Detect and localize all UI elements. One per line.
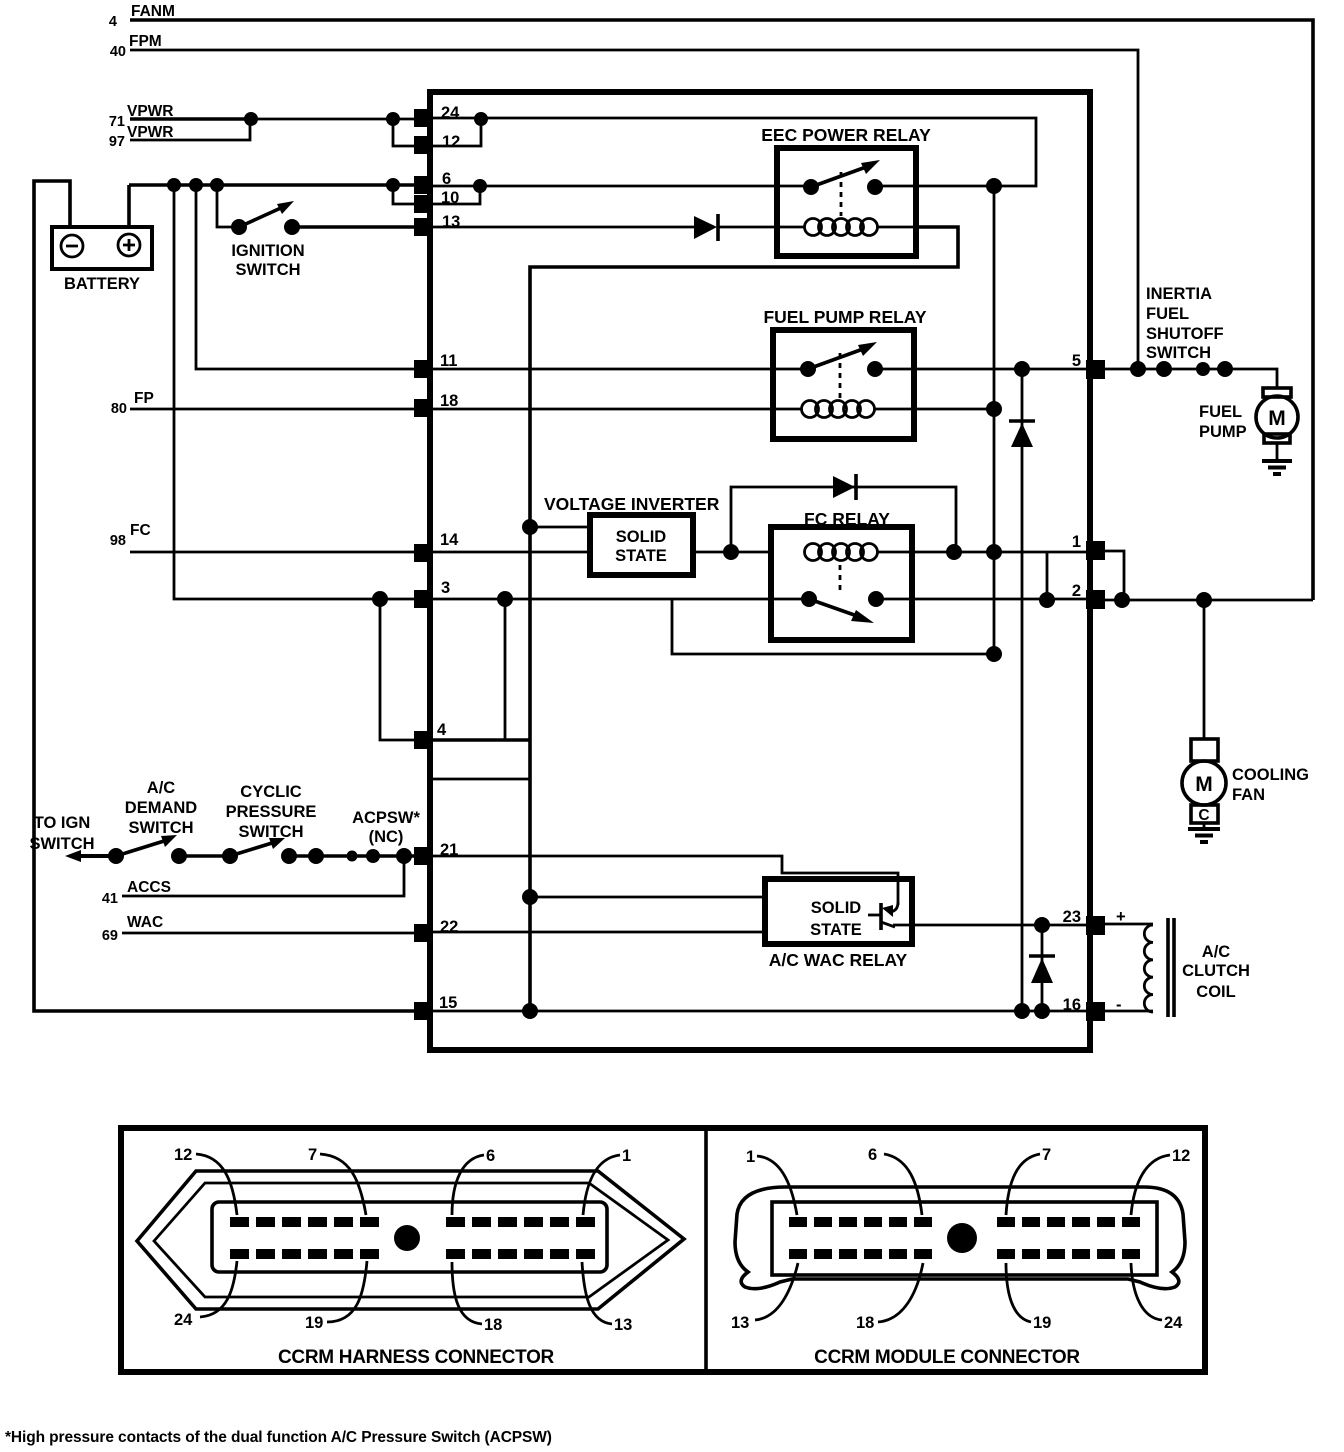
svg-text:7: 7 xyxy=(308,1146,317,1164)
svg-text:+: + xyxy=(1116,908,1126,926)
connector panel divider xyxy=(704,1128,708,1372)
svg-text:M: M xyxy=(1195,773,1213,796)
bracket pin 10 right xyxy=(433,186,480,204)
svg-text:13: 13 xyxy=(731,1314,749,1332)
A/C clutch coil L1 xyxy=(1144,925,1153,1012)
A/C WAC relay U2 xyxy=(765,879,912,944)
FC relay contacts xyxy=(801,591,817,607)
svg-text:TO IGN: TO IGN xyxy=(34,814,91,832)
junction bus D xyxy=(386,178,400,192)
svg-text:11: 11 xyxy=(440,352,457,370)
svg-text:CLUTCH: CLUTCH xyxy=(1182,962,1250,980)
svg-text:STATE: STATE xyxy=(615,547,667,565)
junction inverter feed xyxy=(522,519,538,535)
junction pin24 row inner xyxy=(474,112,488,126)
svg-text:VOLTAGE INVERTER: VOLTAGE INVERTER xyxy=(544,494,720,514)
svg-text:FP: FP xyxy=(134,390,154,407)
junction bus B xyxy=(189,178,203,192)
junction pin4 bracket mid xyxy=(497,591,513,607)
harness pins bottom row xyxy=(230,1249,595,1259)
svg-text:PUMP: PUMP xyxy=(1199,423,1247,441)
battery B1 xyxy=(52,227,152,269)
svg-text:EEC POWER RELAY: EEC POWER RELAY xyxy=(761,125,931,145)
wire VPWR pin 97 joins 71 xyxy=(130,119,250,140)
pin 11 xyxy=(414,360,433,378)
junction bypass right xyxy=(946,544,962,560)
harness key circle xyxy=(394,1225,420,1251)
svg-text:*High pressure contacts of the: *High pressure contacts of the dual func… xyxy=(5,1429,552,1446)
bracket pin 1 left drop xyxy=(1046,552,1049,600)
diode D3 bypass over FC relay xyxy=(731,487,956,552)
bracket pin 4 left xyxy=(380,599,414,740)
svg-text:13: 13 xyxy=(614,1316,632,1334)
wire EEC coil return vertical lower xyxy=(993,186,996,654)
svg-text:4: 4 xyxy=(437,721,447,739)
wire FP pin 80 row xyxy=(130,408,773,411)
pin 2 xyxy=(1086,590,1105,609)
wire battery bus to pin 6 xyxy=(129,183,414,187)
junction FC coil return xyxy=(986,544,1002,560)
pin 24 xyxy=(414,109,433,127)
pin 21 xyxy=(414,847,433,865)
svg-text:FC: FC xyxy=(130,522,151,539)
svg-text:71: 71 xyxy=(109,114,125,130)
svg-text:SWITCH: SWITCH xyxy=(238,823,303,841)
svg-text:1: 1 xyxy=(622,1147,631,1165)
fuel pump motor M1 xyxy=(1263,388,1291,397)
svg-text:ACPSW*: ACPSW* xyxy=(352,809,420,827)
svg-text:CCRM MODULE CONNECTOR: CCRM MODULE CONNECTOR xyxy=(814,1347,1080,1368)
battery B1 return wire to pin 15 xyxy=(34,181,414,1011)
EEC relay contacts xyxy=(803,179,819,195)
junction pin4 bracket left xyxy=(372,591,388,607)
A/C demand switch S3 xyxy=(108,848,124,864)
junction VPWR merge xyxy=(244,112,258,126)
junction diode D4 bottom xyxy=(1034,1003,1050,1019)
svg-text:3: 3 xyxy=(441,579,450,597)
svg-text:ACCS: ACCS xyxy=(127,879,171,896)
pin 15 xyxy=(414,1002,433,1020)
svg-text:10: 10 xyxy=(441,189,459,207)
svg-text:CCRM HARNESS CONNECTOR: CCRM HARNESS CONNECTOR xyxy=(278,1347,555,1368)
junction WAC relay feed xyxy=(522,889,538,905)
pin 3 xyxy=(414,590,433,608)
diode D2 vertical to pin16 row xyxy=(1021,369,1024,1011)
wire ignition feed drop xyxy=(217,185,237,227)
svg-text:COIL: COIL xyxy=(1196,983,1235,1001)
wire ACPSW row xyxy=(289,854,414,858)
pin 18 xyxy=(414,399,433,417)
svg-text:FUEL PUMP RELAY: FUEL PUMP RELAY xyxy=(763,307,926,327)
svg-text:IGNITION: IGNITION xyxy=(231,242,304,260)
junction coil return at pin15 row xyxy=(522,1003,538,1019)
wire VPWR pin 71 xyxy=(130,117,252,121)
diode D4 clutch clamp xyxy=(1041,925,1044,1011)
svg-text:24: 24 xyxy=(441,104,460,122)
wire FANM net xyxy=(130,20,1313,600)
wire pin 21 row inner xyxy=(433,856,898,905)
battery B1 positive feed to bus xyxy=(127,185,131,228)
svg-text:12: 12 xyxy=(174,1146,192,1164)
bracket pin 12 right xyxy=(433,119,481,146)
svg-text:C: C xyxy=(1198,807,1209,824)
svg-text:FUEL: FUEL xyxy=(1146,305,1189,323)
junction FP coil return xyxy=(986,401,1002,417)
svg-text:19: 19 xyxy=(1033,1314,1051,1332)
bracket pin 4 mid xyxy=(504,599,507,740)
ground fuel pump xyxy=(1276,443,1279,461)
wire clutch coil minus xyxy=(1105,1010,1153,1013)
svg-text:4: 4 xyxy=(109,14,117,30)
pin 13 xyxy=(414,218,433,236)
wire inverter feed xyxy=(530,526,590,529)
junction coil return bracket xyxy=(986,646,1002,662)
wire pin 2 row to FANM xyxy=(1105,599,1313,602)
pin 14 xyxy=(414,544,433,562)
svg-text:A/C WAC RELAY: A/C WAC RELAY xyxy=(769,950,908,970)
svg-text:19: 19 xyxy=(305,1314,323,1332)
svg-text:M: M xyxy=(1268,407,1286,430)
svg-text:SWITCH: SWITCH xyxy=(235,261,300,279)
cyclic pressure switch S4 xyxy=(222,848,238,864)
pin 4 xyxy=(414,731,433,749)
svg-text:98: 98 xyxy=(110,533,126,549)
junction diode D4 top xyxy=(1034,917,1050,933)
svg-text:FAN: FAN xyxy=(1232,786,1265,804)
svg-text:FPM: FPM xyxy=(129,33,162,50)
svg-text:SWITCH: SWITCH xyxy=(1146,344,1211,362)
svg-text:INERTIA: INERTIA xyxy=(1146,285,1212,303)
wire pin 11 row xyxy=(196,185,808,369)
cooling fan motor M2 xyxy=(1191,739,1218,761)
svg-text:12: 12 xyxy=(1172,1147,1190,1165)
pin 10 xyxy=(414,195,433,213)
svg-text:2: 2 xyxy=(1072,582,1081,600)
pin 6 xyxy=(414,176,433,194)
svg-text:16: 16 xyxy=(1063,996,1081,1014)
svg-text:A/C: A/C xyxy=(147,779,176,797)
svg-text:18: 18 xyxy=(440,392,458,410)
FC relay coil xyxy=(805,544,822,561)
svg-text:1: 1 xyxy=(1072,533,1081,551)
junction cooling fan tap xyxy=(1196,592,1212,608)
wire inertia switch row xyxy=(1105,369,1277,388)
bracket pin 12 left xyxy=(393,119,414,146)
svg-text:7: 7 xyxy=(1042,1146,1051,1164)
bracket pin 10 left xyxy=(393,185,414,204)
svg-text:1: 1 xyxy=(746,1148,755,1166)
CCRM module connector outline xyxy=(735,1187,1185,1289)
wire FPM net xyxy=(130,50,1138,369)
svg-text:14: 14 xyxy=(440,531,459,549)
transistor symbol in WAC relay xyxy=(879,903,883,930)
inertia fuel shutoff switch S2 xyxy=(1156,361,1172,377)
svg-text:FANM: FANM xyxy=(131,3,175,20)
EEC relay coil xyxy=(777,226,805,229)
wire pin 24 row to EEC loop xyxy=(433,118,1036,186)
wire FC contact to pin 2 xyxy=(876,598,1086,601)
ground cooling fan xyxy=(1203,823,1206,829)
wire inverter output xyxy=(693,551,771,554)
svg-text:24: 24 xyxy=(174,1311,193,1329)
wire FC pin 98 row xyxy=(130,551,590,554)
svg-text:15: 15 xyxy=(439,994,457,1012)
svg-text:97: 97 xyxy=(109,134,125,150)
wire pin 4 row xyxy=(433,738,530,742)
pin 12 xyxy=(414,136,433,154)
ACPSW contacts xyxy=(308,848,324,864)
FP relay contacts xyxy=(800,361,816,377)
svg-text:6: 6 xyxy=(486,1147,495,1165)
wire FC coil to pin 1 xyxy=(877,551,1086,554)
svg-text:6: 6 xyxy=(868,1146,877,1164)
svg-text:12: 12 xyxy=(442,133,460,151)
wire ACCS pin 41 xyxy=(122,856,404,896)
svg-text:WAC: WAC xyxy=(127,914,163,931)
junction bus A xyxy=(167,178,181,192)
FP relay coil xyxy=(773,408,802,411)
module pins top row xyxy=(789,1217,1140,1227)
wire EEC coil return bus xyxy=(530,227,958,1011)
CCRM module outline box xyxy=(430,92,1090,1050)
junction diode tap pin5 row xyxy=(1014,361,1030,377)
wire cooling fan drop xyxy=(1203,600,1206,739)
svg-text:SWITCH: SWITCH xyxy=(29,835,94,853)
pin 16 xyxy=(1086,1002,1105,1021)
wire pin 22 row inner xyxy=(433,931,765,934)
svg-text:VPWR: VPWR xyxy=(127,103,174,120)
pin 5 xyxy=(1086,360,1105,379)
junction bypass left xyxy=(723,544,739,560)
svg-text:41: 41 xyxy=(102,891,118,907)
wire WAC relay feed xyxy=(530,896,765,899)
svg-text:18: 18 xyxy=(856,1314,874,1332)
junction EEC contact row xyxy=(986,178,1002,194)
module key circle xyxy=(947,1223,977,1253)
junction VPWR bracket left xyxy=(386,112,400,126)
svg-text:SHUTOFF: SHUTOFF xyxy=(1146,325,1224,343)
wire WAC output to pin 23 xyxy=(893,924,1086,927)
svg-text:80: 80 xyxy=(111,401,127,417)
svg-text:VPWR: VPWR xyxy=(127,124,174,141)
pin 23 xyxy=(1086,916,1105,935)
diode D1 on pin 13 row xyxy=(433,226,694,229)
svg-text:69: 69 xyxy=(102,928,118,944)
svg-text:FUEL: FUEL xyxy=(1199,403,1242,421)
svg-text:18: 18 xyxy=(484,1316,502,1334)
wire pin 15 row xyxy=(433,1010,1086,1013)
wire ignition to pin 13 xyxy=(292,225,414,229)
svg-text:SWITCH: SWITCH xyxy=(128,819,193,837)
svg-text:SOLID: SOLID xyxy=(811,899,862,917)
junction bus C xyxy=(210,178,224,192)
svg-text:PRESSURE: PRESSURE xyxy=(226,803,317,821)
wire pin 5 row xyxy=(875,368,1086,371)
svg-text:5: 5 xyxy=(1072,352,1081,370)
CCRM harness connector outline xyxy=(137,1171,684,1309)
harness pins top row xyxy=(230,1217,595,1227)
wire WAC pin 69 row xyxy=(122,932,414,935)
svg-text:BATTERY: BATTERY xyxy=(64,275,140,293)
svg-text:-: - xyxy=(1116,996,1122,1014)
svg-text:STATE: STATE xyxy=(810,921,862,939)
svg-text:A/C: A/C xyxy=(1202,943,1231,961)
wire clutch coil plus xyxy=(1105,923,1153,926)
ignition switch S1 xyxy=(231,219,247,235)
junction FPM tap xyxy=(1130,361,1146,377)
svg-text:24: 24 xyxy=(1164,1314,1183,1332)
svg-text:DEMAND: DEMAND xyxy=(125,799,197,817)
svg-text:40: 40 xyxy=(110,44,126,60)
svg-text:23: 23 xyxy=(1063,908,1081,926)
pin 22 xyxy=(414,924,433,942)
wire pin 3 row xyxy=(174,185,809,599)
svg-text:(NC): (NC) xyxy=(369,828,404,846)
connector panel frame xyxy=(121,1128,1205,1372)
junction diode D2 at pin16 row xyxy=(1014,1003,1030,1019)
module pins bottom row xyxy=(789,1249,1140,1259)
wire between switches xyxy=(179,854,230,858)
junction pin6 row inner xyxy=(473,179,487,193)
wire stub below pin 4 xyxy=(433,778,530,781)
bracket pin 1 right drop xyxy=(1105,551,1124,600)
svg-text:CYCLIC: CYCLIC xyxy=(240,783,302,801)
svg-text:COOLING: COOLING xyxy=(1232,766,1309,784)
wire coil return bracket xyxy=(672,599,994,654)
wire pin 6 row to EEC contact xyxy=(433,185,811,188)
pin 1 xyxy=(1086,541,1105,560)
wire to ign switch stub xyxy=(72,854,116,858)
svg-text:SOLID: SOLID xyxy=(616,528,667,546)
